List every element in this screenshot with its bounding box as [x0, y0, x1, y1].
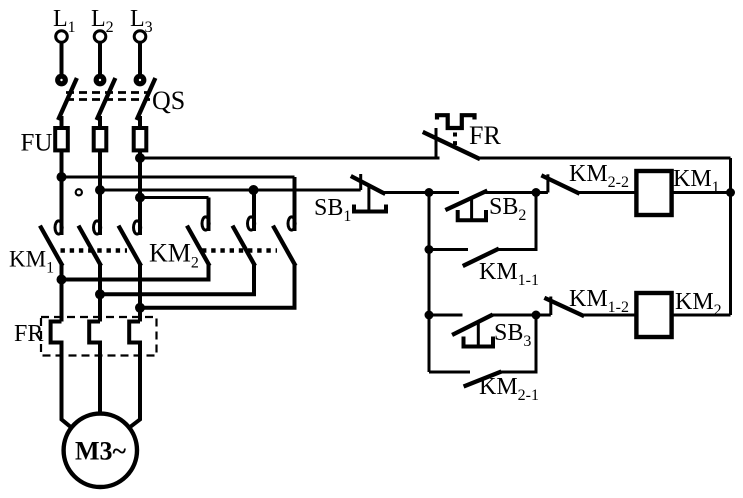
pushbutton SB2 (NO start forward) [429, 192, 536, 221]
wire KM2 pole1 to phase1 node [62, 263, 209, 280]
linkage KM1 (dotted) [61, 248, 128, 252]
wire coil KM1 to right bus [672, 191, 731, 194]
wire control left vertical [428, 193, 431, 373]
wire motor lead 3 [129, 356, 140, 428]
contactor KM2 main contact pole1 [188, 198, 209, 265]
wire motor lead 1 [62, 356, 72, 428]
wire KM2 pole3 to phase3 node [140, 263, 295, 308]
wire SB1 to node [383, 191, 429, 194]
node phase3/control (FR line) [135, 153, 145, 163]
node control left low [425, 311, 434, 320]
contactor KM2 main contact pole3 [274, 177, 295, 264]
QS blade 2 [98, 80, 115, 118]
wire phase3 to fuse [138, 116, 142, 128]
wire coil KM2 to right bus [672, 314, 731, 317]
QS blade 1 [59, 80, 76, 118]
QS blade 3 [138, 80, 155, 118]
wire phase3 lower vertical [138, 263, 142, 322]
FR heater element 1 [51, 322, 62, 357]
QS pole 3 fixed contact [134, 74, 147, 87]
thermal overload FR (dashed box) [41, 317, 157, 356]
coil KM1 [636, 171, 671, 215]
QS pole 2 fixed contact [94, 74, 107, 87]
wire phase1 to fuse [60, 116, 64, 128]
QS linkage (dashed) [66, 93, 150, 100]
QS pole 1 fixed contact [55, 74, 68, 87]
bus wire phase1 to KM2 pole3 [62, 176, 295, 179]
svg-text:FR: FR [14, 321, 43, 347]
terminal L2 [94, 31, 106, 43]
bus wire phase2 to KM2 pole2 and control [100, 189, 361, 192]
wire phase2 to fuse [98, 116, 102, 128]
contact KM2-2 (NC interlock) [536, 174, 636, 193]
wire L2 drop [98, 43, 102, 75]
wire KM2 pole2 to phase2 node [100, 263, 254, 294]
node phase1/bus [57, 172, 67, 182]
wire motor lead 2 [98, 356, 102, 413]
wire phase1 lower vertical [60, 263, 64, 322]
node (open ring marker) [75, 188, 83, 196]
FR heater element 2 [89, 322, 100, 357]
node phase2/bus [95, 185, 105, 195]
wire L3 drop [138, 43, 142, 75]
pushbutton SB3 (NO start reverse) [429, 315, 536, 347]
motor M [64, 414, 137, 487]
bus wire phase3 to KM2 pole1 [140, 196, 209, 199]
node rung2 right [532, 311, 541, 320]
terminal L1 [56, 31, 68, 43]
wire phase1 vertical [60, 151, 64, 222]
contact KM1-1 (NO self-hold) [429, 193, 536, 266]
node rung1 right [532, 188, 541, 197]
thermal relay FR contact (NC) [425, 115, 731, 158]
FR heater element 3 [129, 322, 140, 357]
contact KM1-2 (NC interlock) [536, 297, 636, 316]
node phase3 lower [135, 303, 145, 313]
terminal L3 [134, 31, 146, 43]
contact KM2-1 (NO self-hold) [429, 315, 536, 386]
wire phase3 vertical [138, 151, 142, 222]
svg-text:QS: QS [152, 86, 185, 115]
svg-text:M3~: M3~ [75, 437, 127, 466]
contactor KM1 main contact pole3 [120, 218, 141, 264]
coil KM2 [636, 293, 671, 337]
wire right bus vertical [729, 158, 732, 315]
linkage KM2 (dotted) [202, 248, 277, 252]
contactor KM1 main contact pole2 [80, 218, 101, 264]
node right bus [726, 188, 735, 197]
svg-text:FU: FU [21, 130, 53, 157]
node phase1 lower [57, 275, 67, 285]
fuse FU1 [55, 128, 68, 150]
pushbutton SB1 (NC stop) [353, 174, 386, 212]
node phase3/bus [135, 193, 145, 203]
wire control supply (to FR contact) [140, 157, 440, 160]
fuse FU3 [134, 128, 147, 150]
node phase2 lower [95, 289, 105, 299]
contactor KM1 main contact pole1 [41, 218, 62, 264]
node control tap [249, 185, 259, 195]
node control left mid [425, 245, 434, 254]
wire phase2 lower vertical [98, 263, 102, 322]
node control left top [425, 188, 434, 197]
contactor KM2 main contact pole2 [234, 190, 255, 264]
wire L1 drop [60, 43, 64, 75]
wire phase2 vertical [98, 151, 102, 222]
svg-text:FR: FR [469, 121, 501, 150]
fuse FU2 [94, 128, 107, 150]
